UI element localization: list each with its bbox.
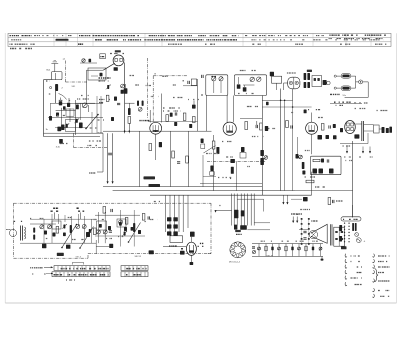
oscillator-mixer tube V1	[113, 55, 124, 66]
ferrite coil arcs	[25, 227, 26, 239]
double electrolytic capacitor	[288, 77, 300, 89]
wire x236.5 vertical	[236, 162, 238, 191]
wire mains top lead	[352, 205, 354, 217]
box extra dark i	[131, 227, 134, 231]
tone ladder ground tap	[321, 256, 323, 259]
can2 capacitor 1	[238, 77, 240, 84]
fuse capsule F1	[341, 74, 350, 79]
wire bend	[59, 94, 67, 100]
box extra dark j	[63, 233, 66, 237]
capacitor C14	[290, 125, 292, 128]
resistor R20	[149, 144, 152, 151]
front end dark comp c	[49, 116, 52, 121]
header table outer border	[8, 33, 391, 46]
arrow label left	[89, 172, 95, 174]
dark bar bank 1	[382, 127, 385, 133]
resistor chain below line	[231, 167, 234, 174]
row1 group A cell marks	[61, 268, 109, 270]
dark pair in box 3	[329, 169, 334, 174]
wire T1 to rectifier	[163, 246, 186, 248]
labels right block	[334, 101, 351, 103]
component cluster below V1	[124, 88, 128, 93]
box extra dark b	[53, 233, 56, 237]
B7 column lines	[301, 218, 303, 245]
wire y63 top	[80, 62, 97, 64]
front end dark comp a	[63, 106, 66, 110]
box horizontal wire y219	[30, 218, 96, 220]
component on dash line	[149, 250, 154, 254]
speaker cone	[311, 224, 327, 243]
tone ladder rungs	[258, 244, 260, 257]
component left of V7	[180, 251, 185, 255]
wires top right bottom section	[282, 195, 284, 204]
trimmer T12	[76, 225, 80, 229]
resistor R31	[306, 180, 314, 183]
V7 label	[200, 242, 203, 244]
chassis box dash-dot border	[14, 202, 212, 204]
wire x103 branch	[102, 133, 104, 172]
header table row3 text	[10, 43, 36, 45]
labels above C1	[99, 77, 111, 79]
dark comp left of pins 2	[339, 236, 342, 242]
resistor R12	[286, 121, 289, 128]
bus y186.5	[103, 186, 262, 188]
resistor R25	[212, 141, 215, 149]
trimmer near capsules	[264, 156, 268, 160]
comp cluster left of box	[296, 154, 299, 159]
row2 group A cell marks	[54, 274, 109, 276]
switch diagonal S2	[62, 225, 77, 248]
component C4	[57, 127, 61, 132]
switch table row1 group B	[121, 266, 148, 271]
dark capsule right	[323, 80, 327, 85]
micro labels near B7	[300, 209, 310, 211]
capacitor C21	[177, 161, 180, 163]
switch table row2 group B	[121, 272, 148, 277]
front end vert stubs	[51, 96, 102, 133]
tone ladder top wire	[252, 243, 323, 245]
header table row2 text	[11, 39, 21, 41]
parts in oscillator box	[100, 73, 103, 77]
dark comp in box top	[321, 159, 324, 163]
IF extra comp a	[174, 122, 177, 126]
wires around core	[355, 123, 362, 125]
wire speaker left	[299, 229, 308, 231]
label TS17 below table	[66, 279, 75, 281]
component K1	[59, 101, 62, 105]
wire x150 stub	[149, 110, 151, 123]
component on bottom wire 1	[42, 244, 46, 248]
label 250V block 1	[144, 176, 156, 179]
dark pin column 2	[307, 73, 310, 80]
label 250V block 2	[149, 184, 161, 187]
wire V1 right lead down	[124, 63, 126, 134]
antenna Bu1	[54, 64, 56, 72]
T1 winding lines	[165, 195, 167, 232]
wire verticals in box	[97, 212, 99, 243]
dark bar bank 2	[386, 128, 389, 133]
resistor chain left outside	[302, 162, 305, 169]
resistor R2	[128, 117, 131, 124]
ferrite antenna circle	[9, 229, 16, 236]
coil L3	[128, 108, 131, 115]
tuning cap C41	[89, 229, 91, 233]
component x305	[303, 197, 308, 201]
dark comp top left center	[201, 139, 204, 144]
svg-text:SK7-II: SK7-II	[76, 256, 82, 258]
component K2	[67, 103, 70, 107]
capacitor beside box	[187, 81, 189, 84]
row2 group B cell marks	[126, 274, 141, 276]
note text below table left	[10, 48, 32, 50]
wire pair x112.5 with arrow	[112, 133, 114, 183]
resistor R11	[260, 123, 263, 130]
marks in mains capsule	[343, 218, 358, 220]
component cluster x104	[103, 207, 106, 214]
trimmer C2	[82, 103, 87, 108]
component small	[333, 124, 336, 128]
svg-text:Ø9-9-54-1-4: Ø9-9-54-1-4	[229, 261, 241, 263]
wire lamp leads	[336, 75, 341, 77]
front end wire y103.5	[50, 103, 103, 105]
box right of core	[374, 125, 380, 133]
tuning capacitor C6	[76, 119, 78, 123]
labels below arrows	[344, 156, 351, 158]
wire x96 in box	[95, 240, 97, 254]
long wire x284.5	[284, 100, 286, 191]
resistor R8	[183, 113, 186, 120]
stand arrow label 2	[32, 273, 46, 275]
tuning capacitor C1	[107, 85, 109, 89]
dark pair in box 1	[313, 169, 318, 174]
wire x197.5 long	[197, 79, 199, 131]
T1 label	[169, 245, 177, 247]
resistor R6	[166, 115, 169, 122]
wire y183	[200, 182, 262, 184]
arrow stub 2	[362, 147, 364, 154]
micro labels near output transformer	[154, 201, 160, 203]
dark comp above MF2 box	[270, 72, 274, 76]
stand arrow 1	[44, 266, 53, 268]
gray labels SK1 positions	[90, 127, 97, 129]
terminal	[50, 87, 52, 89]
resistor R42	[125, 218, 128, 225]
wire x292 down	[292, 89, 294, 100]
lead TS2 down	[80, 212, 82, 219]
wire y176.3	[203, 175, 216, 177]
dash-dot screen top edge	[153, 75, 188, 77]
switch table row2 group A	[52, 272, 110, 277]
wire x170.5	[170, 131, 172, 186]
wire elko leads	[284, 82, 288, 84]
long wire x292.5	[292, 100, 294, 191]
component x109 bottom	[109, 244, 113, 248]
MF1 coil pair	[137, 101, 139, 106]
boxed label TS2	[77, 207, 79, 209]
box extra outline 1	[52, 221, 61, 229]
pilot lamp terminal 2	[334, 87, 336, 89]
wire bus y136.5	[44, 136, 101, 138]
wire x188.5	[188, 131, 190, 186]
stacked capsule comps x261	[260, 150, 264, 156]
long wire x352.5	[352, 141, 354, 218]
labels left of box	[183, 80, 185, 82]
lead TS1 down	[54, 212, 56, 219]
pin dot column 1	[344, 223, 345, 224]
resistor R43	[142, 214, 145, 221]
oscillator section box	[88, 68, 106, 80]
micro labels top middle	[201, 94, 203, 96]
wire x86.5 vertical	[86, 70, 88, 103]
wire vertical x61	[60, 108, 62, 131]
wire L3/R2 chain	[128, 103, 130, 108]
coil L12	[133, 223, 135, 232]
IF tube V2	[150, 122, 162, 134]
dark pin column 1	[304, 73, 307, 80]
can2 trimmer 1	[250, 77, 254, 81]
wire below can1	[206, 95, 208, 131]
wire IF bottom bus y131	[103, 130, 212, 132]
can1 top dots	[211, 76, 213, 78]
bus y195	[150, 194, 312, 196]
arrow stub 3	[369, 147, 371, 154]
tuning capacitor C3	[66, 124, 68, 128]
drawing frame right border	[396, 33, 398, 303]
can2 capacitor 2	[244, 85, 246, 87]
wire transformer right connections	[254, 222, 270, 224]
marked circle	[356, 238, 361, 243]
drawing frame left border	[4, 33, 6, 303]
tuning cap C40	[63, 225, 65, 229]
V1 label box	[100, 54, 106, 59]
tick marks on screen edge	[162, 75, 168, 77]
comp cluster x242	[241, 147, 245, 152]
marks in small box	[314, 78, 316, 81]
capacitor C13	[255, 125, 257, 128]
legend column 1	[345, 254, 347, 258]
wire vertical x75.5	[75, 100, 77, 135]
front end dark comp d	[56, 113, 59, 117]
component C5 dark	[59, 139, 63, 144]
mains transformer winding lines	[231, 194, 233, 226]
T1 core blocks row1	[167, 217, 171, 221]
front end matrix box 1	[66, 109, 74, 116]
labels Ra	[330, 93, 340, 95]
rectifier tube V7	[186, 242, 196, 255]
B7 pin column 2	[308, 218, 310, 220]
wire antenna left branch	[44, 79, 52, 81]
capacitor on pair	[108, 152, 112, 154]
terminal right	[327, 81, 331, 85]
feedback network box	[311, 156, 342, 175]
bus y190.5	[113, 190, 295, 192]
front end dark comp f	[62, 125, 65, 131]
component cluster right of V2	[192, 105, 196, 109]
label right of RC	[336, 200, 343, 202]
wire y143.5	[340, 143, 368, 145]
resistor R22	[186, 156, 189, 163]
dark pair in box 2	[319, 169, 324, 174]
capacitor in box	[326, 159, 328, 162]
coil L2	[55, 84, 58, 91]
long wire x262	[261, 96, 263, 196]
IF can 2 outline	[234, 75, 266, 96]
tube socket circle	[230, 242, 246, 258]
mains transformer bottom contacts	[234, 225, 237, 230]
long wire x280.5	[280, 89, 282, 191]
T1 core blocks row3	[167, 231, 171, 235]
front end dark comp b	[76, 105, 79, 110]
extra cap x117	[117, 102, 120, 104]
wire x203 vertical	[202, 155, 204, 187]
coil L11	[70, 225, 72, 233]
capacitor C7	[174, 112, 176, 115]
wire V5 up	[311, 113, 313, 123]
V1 pin squares	[115, 58, 117, 61]
arrow stub 1	[346, 147, 348, 154]
T1 bottom box	[170, 236, 183, 243]
dark comp below V1	[114, 67, 118, 71]
wire y225 box	[30, 223, 56, 225]
pilot lamp	[359, 80, 363, 84]
resistor in box top	[313, 159, 320, 161]
can2 shelf wire	[243, 84, 254, 86]
legend curly brace	[374, 269, 378, 282]
trimmer T15	[103, 230, 107, 234]
wire x297.5	[297, 137, 299, 154]
indicator tube V5	[306, 122, 318, 134]
dash-dot screen V2	[152, 76, 154, 122]
MF1 trimmer	[138, 107, 142, 111]
component above V7	[190, 232, 195, 237]
ferrite rod bars	[20, 226, 22, 241]
speaker terminal box	[334, 227, 345, 246]
box extra dark h	[119, 222, 122, 226]
tone ladder bottom wire	[252, 255, 323, 257]
box vertical wires	[44, 214, 92, 243]
front end dark comp e	[79, 123, 83, 129]
can1 trimmer 2	[219, 77, 223, 81]
dark pin marks lower	[304, 82, 307, 88]
extra comp y103 left	[266, 102, 269, 105]
B7 pin column 1	[301, 218, 303, 220]
header table column separators	[54, 33, 371, 46]
label Sp	[311, 220, 318, 222]
wire x311.5 lower	[311, 134, 313, 154]
switch table row1 group A	[54, 266, 110, 271]
mains capsule outline	[341, 217, 361, 221]
trimmer T10	[40, 225, 44, 229]
marks in terminal box	[335, 231, 338, 233]
junction dots y100.3	[280, 100, 282, 102]
T1 core blocks row2	[167, 224, 171, 228]
wire y190 right segment	[295, 190, 353, 192]
header table row1 text	[10, 35, 32, 37]
resistor R10	[245, 122, 248, 130]
wire transformer top bend	[237, 199, 263, 211]
labels row y109	[308, 109, 320, 111]
extra comp x305 y110	[304, 110, 307, 114]
wire y199	[291, 198, 302, 200]
wire antenna down	[55, 91, 57, 103]
resistor R41	[94, 228, 97, 235]
wire V7 top	[190, 237, 192, 242]
small core bars	[352, 223, 354, 231]
box horizontal wire y236	[95, 235, 145, 237]
wire y85.8 IF right	[183, 85, 198, 87]
dark bar bank 3	[389, 127, 392, 133]
power tube V4	[223, 122, 236, 135]
header table row line 2	[8, 41, 391, 43]
component left of V6	[340, 128, 343, 132]
box extra dark g	[99, 224, 102, 228]
component C20	[159, 142, 162, 147]
component box on screen edge	[191, 79, 196, 85]
wire y107 center	[262, 106, 311, 108]
dark comp left of pins 1	[339, 225, 342, 231]
wire y70 left	[87, 69, 104, 71]
tuning cap C44	[124, 232, 126, 236]
label above V1	[115, 50, 121, 52]
capacitor C45	[147, 216, 149, 219]
top parts row left of V1	[82, 59, 85, 62]
labels above IF comps	[163, 107, 180, 109]
wire pair x107.5 with arrow	[107, 133, 109, 183]
micro labels chassis box	[30, 218, 44, 220]
resistor R15	[321, 124, 324, 131]
box extra outline 2	[97, 221, 107, 230]
mains transformer core bar 1	[234, 210, 238, 218]
box extra outline 3	[117, 219, 126, 227]
box extra dark f	[138, 230, 141, 234]
tone ladder left components	[252, 246, 255, 248]
legend column 2	[372, 254, 374, 258]
bracket above table	[73, 262, 84, 264]
front end matrix box 2	[66, 120, 76, 132]
dash-dot screen bottom left	[73, 133, 75, 147]
capacitor C15	[328, 125, 330, 128]
box extra dark e	[124, 227, 127, 231]
dash-dot switch line y161.5	[207, 161, 266, 163]
label 6a	[307, 70, 312, 72]
wire vertical x70	[69, 108, 71, 122]
can1 interior vertical 2	[220, 81, 222, 93]
resistor R40	[56, 227, 59, 234]
mains transformer core bar 2	[241, 210, 245, 216]
wire MF2 down	[276, 83, 278, 90]
wire y118	[240, 117, 262, 119]
labels right of R1	[99, 99, 110, 101]
label Gr2 arrows	[292, 217, 294, 223]
wire x139.5	[139, 131, 141, 186]
box extra dark a	[44, 231, 47, 235]
IF extra comp b	[189, 124, 192, 128]
resistor R1	[106, 95, 109, 101]
IF can 1 outline	[206, 75, 228, 96]
switch diagonal S4	[129, 223, 141, 243]
wires around trimmer C2	[76, 102, 96, 104]
wire V1 left lead diagonal	[103, 63, 115, 70]
tiny label at left border	[6, 229, 11, 231]
cap left of can1	[201, 75, 203, 78]
row1 group B cell marks	[126, 268, 146, 270]
wire y243 box	[20, 242, 96, 244]
box extra dark d	[108, 226, 111, 230]
wire y103 right	[330, 102, 362, 104]
dash-dot extension to SK7-IV	[208, 253, 212, 255]
wire V2 down	[155, 134, 157, 160]
dark comp on switch line	[230, 159, 235, 163]
